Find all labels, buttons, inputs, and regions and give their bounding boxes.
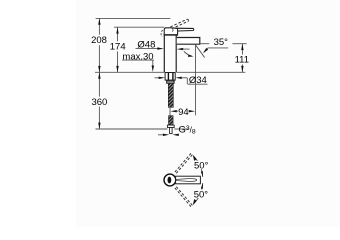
spray angle diagonal from outlet	[195, 45, 204, 58]
lever slot detail	[176, 179, 196, 182]
label 50deg upper	[191, 161, 211, 169]
wire: spout-bottom extension to 111	[200, 43, 209, 45]
dimension 174 line	[117, 27, 119, 41]
washer and nut	[167, 80, 174, 83]
svg-text:360: 360	[91, 97, 107, 108]
handle hub circle	[164, 174, 176, 186]
dimension 208 line	[98, 18, 100, 34]
cap pivot notch	[172, 28, 173, 32]
wire: outlet extension line down	[195, 44, 197, 115]
svg-text:50°: 50°	[194, 161, 209, 172]
spout	[177, 38, 200, 45]
faucet body	[163, 35, 165, 72]
G3/8 tail tube	[170, 128, 173, 134]
lever bar top view	[176, 176, 201, 184]
svg-text:50°: 50°	[194, 189, 209, 200]
threaded shank segment 2 (hatched)	[169, 116, 174, 125]
wire: deck line left	[95, 71, 164, 73]
svg-text:208: 208	[91, 35, 107, 46]
threaded shank segment 1 (hatched)	[168, 83, 173, 107]
dashed lever rotated up 50deg	[175, 152, 192, 172]
dashed arc left of cap (lever swing)	[161, 30, 163, 37]
svg-text:max.30: max.30	[122, 51, 153, 62]
svg-text:94: 94	[178, 107, 189, 118]
dashed lever rotated down 50deg	[175, 188, 192, 208]
wire: top extension line (max lever height)	[96, 17, 171, 19]
drawing area tint	[76, 0, 340, 227]
spray angle arc with arrow	[184, 51, 192, 56]
35 degree leader line and arrow	[208, 47, 228, 49]
dimension Ø34 arrows	[155, 77, 159, 79]
arc lower 50deg	[194, 183, 203, 204]
dimension 360 line	[98, 72, 100, 96]
dimension 111 line	[241, 44, 243, 55]
dimension G3/8 arrows	[158, 134, 163, 136]
faucet cap (cartridge housing)	[164, 28, 177, 35]
svg-text:35°: 35°	[214, 37, 229, 48]
base flange below deck	[165, 73, 175, 81]
svg-text:111: 111	[235, 55, 249, 66]
wire: 174 extension line	[114, 26, 164, 28]
lever handle raised (dashed)	[170, 19, 187, 27]
shank nut	[167, 125, 174, 127]
arrow right side of body for Ø48	[177, 48, 184, 50]
wire: deck line right	[176, 71, 245, 73]
dimension 94	[169, 108, 171, 116]
hub slot	[168, 177, 172, 184]
lever handle (rest position)	[173, 28, 194, 31]
arc upper 50deg	[194, 156, 203, 177]
wire: bottom extension line (360 end)	[96, 128, 168, 130]
label 50deg lower	[191, 190, 211, 198]
